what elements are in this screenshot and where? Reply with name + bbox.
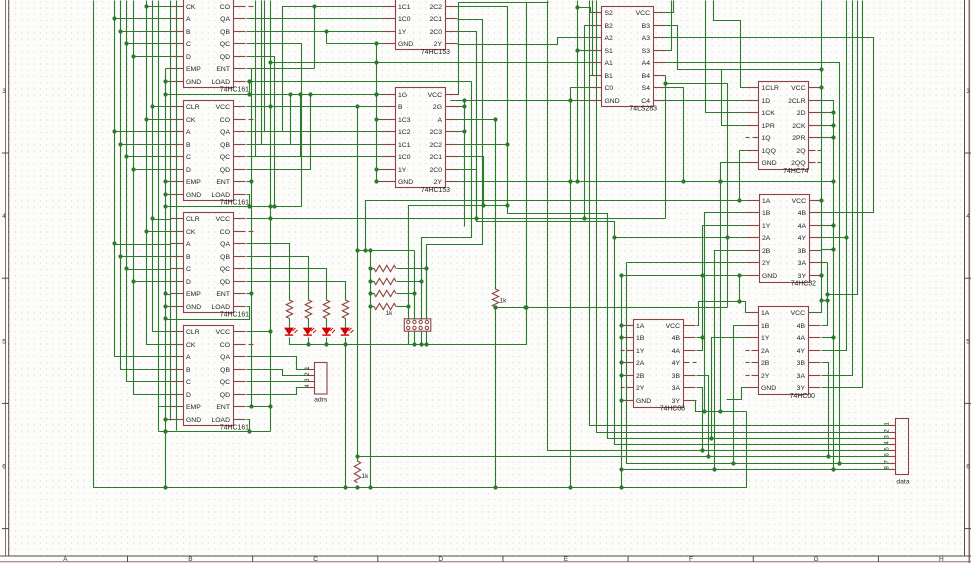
wire B1 drop [590,1,593,76]
wire 4Y 32 [822,235,849,239]
wire S4 283 [666,88,684,182]
svg-text:C4: C4 [641,98,650,105]
wire VCC 00 tie [819,298,827,302]
wire C U2 [127,156,171,158]
svg-text:QD: QD [220,392,230,399]
svg-text:data: data [896,479,909,486]
wire QC U3 to LED3 [247,269,327,301]
wire U4 VCC dot [247,329,273,333]
svg-text:2B: 2B [636,373,645,380]
wire B U3 [121,256,171,258]
svg-text:ENT: ENT [216,404,230,411]
wire 1B 08 [621,337,622,339]
wire 2G U6 [458,106,465,108]
wire 1QQ 74 [737,151,746,203]
svg-text:A: A [186,129,191,136]
svg-text:1k: 1k [500,298,508,305]
wire 3Y 08 [696,401,747,414]
or-gates U9 74HC32 [747,195,822,288]
wire VCC 08 riser [697,302,740,326]
svg-text:3Y: 3Y [672,398,681,405]
svg-text:A2: A2 [605,35,614,42]
svg-text:F: F [689,556,693,563]
wire ENT chain [247,69,254,409]
wire dip col4 lower [426,332,428,345]
wire 1A 08 [621,325,622,327]
svg-text:3Y: 3Y [798,273,807,280]
flip-flop U8 74HC74 [746,82,822,176]
svg-text:GND: GND [186,417,201,424]
svg-text:3: 3 [966,88,970,95]
svg-text:1B: 1B [636,335,645,342]
wire QA U2 stair [247,7,383,132]
wire CLK bus [94,1,747,490]
svg-text:A1: A1 [605,60,614,67]
svg-text:VCC: VCC [792,198,806,205]
LED D1 [285,328,298,335]
wire ENT U2 [247,181,252,183]
wire res leads3 [371,306,375,308]
wire dip col2 lower [414,332,416,345]
wire bus x158 [158,1,160,407]
connector J2 data [884,419,910,486]
svg-text:1C2: 1C2 [398,129,411,136]
wire D U1 [134,56,171,58]
svg-text:GND: GND [398,41,413,48]
svg-text:CLR: CLR [186,216,200,223]
svg-text:1Q: 1Q [762,135,771,142]
svg-text:3A: 3A [798,260,807,267]
svg-text:QA: QA [220,129,230,136]
svg-text:2Y: 2Y [762,260,771,267]
counter U2 74HC161 [171,101,254,207]
wire 3B 00 drop [822,363,829,457]
resistor R10 1k [354,461,369,483]
wire CK U3 [147,231,171,233]
wire A U6 pullup [458,117,498,289]
resistor R5 1k [374,265,396,271]
svg-text:3B: 3B [672,373,681,380]
svg-text:adrs: adrs [314,397,328,404]
svg-text:VCC: VCC [636,10,650,17]
resistor R7 1k [374,290,396,296]
svg-text:4: 4 [2,213,6,220]
wire 2Y U5 to A2 [458,38,590,45]
svg-text:1C1: 1C1 [398,142,411,149]
wire LED anode leads [289,319,291,328]
svg-text:CO: CO [220,229,230,236]
wire bus CLR [150,1,170,332]
counter U3 74HC161 [171,213,254,319]
wire QB U3 to LED2 [247,257,309,301]
svg-text:2C2: 2C2 [430,4,443,11]
svg-text:1k: 1k [386,310,394,317]
wire 1B 00 drop [734,326,747,464]
wire C U3 [127,269,171,271]
svg-text:ENT: ENT [216,66,230,73]
wire QC U2 riser [247,92,303,156]
svg-text:6: 6 [966,464,970,471]
svg-text:CK: CK [186,229,196,236]
wire A3 283 long [666,38,874,213]
wire 1C1 U6 feed [262,1,383,145]
svg-text:1CK: 1CK [762,110,776,117]
wire S1 283 [578,50,590,52]
wire 08 left bus [619,276,623,488]
connector J1 adrs [304,363,328,404]
svg-text:1PR: 1PR [762,123,775,130]
wire QB U1 to 1Y [247,29,383,33]
svg-text:B: B [186,254,191,261]
wire bus x170 [170,1,172,421]
wire dip col4 stub [426,269,428,320]
wire VCC U6 top rail [409,3,529,347]
wire 1G row [166,92,383,96]
svg-text:GND: GND [186,304,201,311]
wire QA U4 to adrs1 [247,357,308,370]
wire VCC c4 drop [270,332,272,432]
wire QC U4 to adrs3 [247,381,308,383]
wire CK U2 [147,119,171,121]
wire QC U1 drop [247,44,302,207]
wire dip col2 [412,251,416,320]
wire bus GND left [163,69,167,488]
wire GND 00 [727,388,747,400]
svg-text:1Y: 1Y [761,335,770,342]
wire C U1 [127,43,171,45]
wire row8 [619,467,889,471]
wire pullup drop x357 [355,107,359,462]
wire 1Y 32 to 4B 08 [697,226,747,351]
wire riser x588 [590,1,890,426]
multiplexer U5 74HC153 [383,0,458,56]
svg-text:2A: 2A [636,360,645,367]
wire bundle1 to 4Y 00 [822,1,847,351]
wire 2C1 U5 drop [424,20,482,320]
svg-text:A3: A3 [642,35,651,42]
wire QD U1 drop [247,57,275,207]
svg-text:74HC153: 74HC153 [421,49,450,56]
svg-text:LOAD: LOAD [211,417,230,424]
wire ENT U3 [247,293,252,295]
wire LED2 lead b [308,338,310,345]
wire row7 [627,263,890,466]
svg-text:CLR: CLR [186,329,200,336]
svg-text:1QQ: 1QQ [762,148,776,155]
wire 1PR vcc [678,70,747,126]
svg-text:QC: QC [220,154,230,161]
svg-text:C: C [186,379,191,386]
wire EMP U1 [166,68,171,70]
wire 3B 32 [822,247,836,251]
wire 1C3 drop [374,44,378,184]
svg-text:CO: CO [220,4,230,11]
svg-text:3: 3 [2,88,6,95]
svg-text:3B: 3B [798,248,807,255]
wire QA U3 to LED1 [247,244,290,301]
svg-text:LOAD: LOAD [211,192,230,199]
wire QD U3 to LED4 [247,282,346,301]
wire ENT riser [312,4,316,68]
svg-text:2D: 2D [797,110,806,117]
wire 2PR 74 [822,137,834,139]
svg-text:2Y: 2Y [636,385,645,392]
svg-text:CK: CK [186,117,196,124]
svg-text:D: D [186,392,191,399]
svg-text:3A: 3A [672,385,681,392]
wire C4 to 1D [666,100,747,102]
svg-text:2Y: 2Y [761,373,770,380]
wire VCC rail right [809,1,824,313]
wire bus A [112,1,170,357]
svg-text:S1: S1 [605,48,614,55]
svg-text:2A: 2A [761,348,770,355]
wire bus B [118,1,170,370]
svg-text:B4: B4 [642,73,651,80]
svg-text:QA: QA [220,354,230,361]
wire LOAD U2 ext [166,204,302,208]
svg-text:3Y: 3Y [797,385,806,392]
svg-text:QC: QC [220,379,230,386]
wire bus D [131,1,170,395]
svg-text:2A: 2A [762,235,771,242]
wire GND 32 [619,273,746,277]
wire D U2 [134,169,171,171]
wire 2Y 32 [627,262,747,264]
svg-text:1G: 1G [398,92,407,99]
counter U4 74HC161 [171,326,254,432]
svg-text:D: D [186,54,191,61]
wire EMP U2 [166,181,171,183]
wire QD U2 riser [247,92,313,169]
wire 3A 08 drop [697,388,703,451]
wire res row1 right [397,268,427,270]
wire QB U4 to adrs2 [247,370,308,376]
wire QB U2 riser [247,92,293,144]
svg-text:2C1: 2C1 [430,154,443,161]
svg-text:1Y: 1Y [398,29,407,36]
wire 1k bottom [493,305,727,309]
svg-text:B2: B2 [605,23,614,30]
LED D4 [341,328,354,335]
svg-text:S3: S3 [642,48,651,55]
wire QA U1 to 1C0 [247,18,383,20]
svg-text:74HC32: 74HC32 [791,281,816,288]
svg-text:A: A [186,354,191,361]
svg-text:G: G [814,556,819,563]
wire B4 283 [665,76,667,219]
wire S2 bracket [578,8,591,13]
svg-text:1B: 1B [761,323,770,330]
wire dip col1 riser [409,203,510,319]
wire B2 net [585,26,590,219]
wire dip col3 lower [421,332,423,345]
wire res leads [371,281,375,283]
svg-text:74LS283: 74LS283 [629,106,657,113]
wire 2A 32 [612,235,746,239]
wire 2C3 U6 [458,131,465,133]
svg-text:2CLR: 2CLR [788,98,805,105]
svg-text:EMP: EMP [186,179,201,186]
counter U1 74HC161 [171,0,254,94]
nand-gates U11 74HC00 [746,307,821,401]
wire LED4 lead [345,319,347,328]
wire riser x546 [548,1,890,453]
svg-text:GND: GND [636,398,651,405]
svg-text:2C1: 2C1 [430,16,443,23]
svg-text:1Y: 1Y [398,167,407,174]
wire 2C0 U6 bracket [458,170,479,221]
LED D2 [304,328,317,335]
wire ENT row ext [252,68,315,70]
svg-text:C: C [186,41,191,48]
wire bundle2 to 3A 00 [822,1,853,376]
wire ENT U4 row [247,404,273,408]
svg-text:QD: QD [220,54,230,61]
svg-text:QB: QB [220,142,230,149]
wire CLR U2 [153,106,171,108]
svg-text:A4: A4 [642,60,651,67]
wire LED rail [290,338,409,347]
wire 3A 32 drop [822,262,828,264]
wire 4B riser [828,1,858,295]
svg-text:2QQ: 2QQ [791,160,805,167]
wire GND U5 row [327,41,383,45]
wire 1Y U6 [377,169,383,171]
wire 4B 00 to VCC [822,263,830,326]
wire VCC U2 to B U6 [247,104,383,108]
wire 2C2 U5 drop [458,7,890,441]
svg-text:CO: CO [220,342,230,349]
svg-text:74HC161: 74HC161 [220,200,249,207]
wire CK U1 [147,6,171,8]
wire B U4 [121,369,171,371]
svg-text:GND: GND [762,273,777,280]
resistor R1 [286,300,292,319]
svg-text:A: A [186,16,191,23]
svg-text:CLR: CLR [186,104,200,111]
svg-text:1D: 1D [762,98,771,105]
wire LOAD U4 [159,420,252,434]
wire res row3 right [397,293,415,295]
svg-text:74HC74: 74HC74 [783,168,808,175]
svg-text:S4: S4 [642,85,651,92]
svg-text:A: A [186,241,191,248]
svg-text:1C0: 1C0 [398,154,411,161]
wire riser x596 [597,1,890,433]
svg-text:2G: 2G [433,104,442,111]
wire CLR U4 [153,331,171,333]
wire 1C3 U6 [377,119,383,121]
svg-text:1k: 1k [362,473,370,480]
svg-text:A: A [63,556,68,563]
wire dip col1 lower [408,332,410,345]
wire A U1 [115,18,171,20]
wire res row2 right [397,281,422,283]
wire 1C2 U6 feed [265,1,383,132]
svg-text:3B: 3B [797,360,806,367]
svg-text:VCC: VCC [666,323,680,330]
wire res leads2 [371,293,375,295]
svg-text:QB: QB [220,254,230,261]
adder U7 74LS283 [590,7,666,113]
wire bus CK [144,1,170,345]
svg-text:LOAD: LOAD [211,79,230,86]
wire CLR U3 [153,219,171,221]
svg-text:D: D [186,279,191,286]
wire dip col3 [419,82,471,320]
wire VCC 283 [666,1,674,13]
wire LED4 lead b [345,338,347,345]
svg-text:2C0: 2C0 [430,29,443,36]
svg-text:QB: QB [220,29,230,36]
svg-text:B: B [186,29,191,36]
svg-text:1Y: 1Y [762,223,771,230]
wire 4A 00 [822,335,836,339]
wire 3Y 32 [819,273,823,277]
wire 1Y 00 drop [712,338,747,439]
svg-text:2PR: 2PR [792,135,805,142]
wire VCC 74 [821,87,823,89]
wire bundle4 to 3Y 00 [822,1,863,388]
svg-text:E: E [564,556,569,563]
wire LOAD U2 [166,195,250,207]
wire LOAD U3 [166,307,250,320]
svg-text:C0: C0 [605,85,614,92]
svg-text:74HC153: 74HC153 [421,187,450,194]
wire LOAD U1 ext [247,79,471,83]
svg-text:B: B [186,142,191,149]
svg-text:VCC: VCC [216,216,230,223]
multiplexer U6 74HC153 [383,88,458,195]
svg-text:4A: 4A [672,348,681,355]
svg-text:5: 5 [966,338,970,345]
svg-text:1C1: 1C1 [398,4,411,11]
svg-text:2Y: 2Y [434,179,443,186]
svg-text:1A: 1A [762,198,771,205]
wire VCC rail left [247,1,273,332]
svg-text:B: B [186,367,191,374]
svg-text:EMP: EMP [186,291,201,298]
svg-text:A: A [437,117,442,124]
svg-text:GND: GND [186,192,201,199]
svg-text:4Y: 4Y [798,235,807,242]
svg-text:5: 5 [2,338,6,345]
svg-text:4: 4 [966,213,970,220]
wire dip col2 top [355,248,414,252]
svg-text:EMP: EMP [186,404,201,411]
resistor R2 [305,300,311,319]
wire LED rail drop [345,345,347,488]
wire LED2 lead [308,319,310,328]
wire GND U4 [166,419,171,421]
wire B U1 [121,31,171,33]
svg-text:GND: GND [398,179,413,186]
svg-text:74HC161: 74HC161 [220,87,249,94]
wire 1C0 U6 feed [256,1,383,157]
wire S2 net [575,1,579,184]
wire VCC 32 [821,200,823,202]
wire 1CLR 74 [714,1,747,88]
wire row6 [358,454,890,458]
wire 2D 74 [822,112,834,114]
wire EMP U3 [166,294,171,296]
svg-text:C: C [313,556,318,563]
svg-text:4Y: 4Y [797,348,806,355]
svg-text:B: B [188,556,192,563]
svg-text:QD: QD [220,167,230,174]
svg-text:GND: GND [762,160,777,167]
